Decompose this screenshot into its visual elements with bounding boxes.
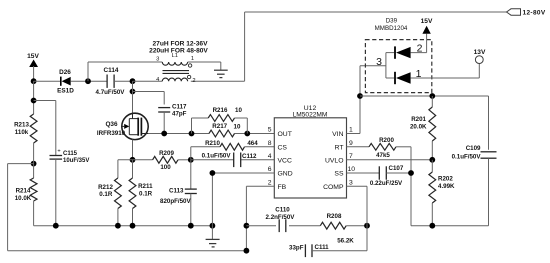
resistor R209 xyxy=(153,150,178,171)
power flag 15V (D39) xyxy=(421,18,433,53)
wire R214 to ground rail xyxy=(33,201,35,226)
svg-text:VCC: VCC xyxy=(278,157,292,164)
svg-text:GND: GND xyxy=(278,171,293,178)
svg-text:10: 10 xyxy=(348,166,356,173)
svg-text:UVLO: UVLO xyxy=(325,157,344,164)
node U (GND pin corner) xyxy=(210,170,216,176)
input tag 12-80V xyxy=(507,9,546,17)
node D (C115 branch) xyxy=(31,98,37,104)
wire ground rail xyxy=(34,225,213,227)
svg-text:D26: D26 xyxy=(59,69,71,76)
svg-text:20.0K: 20.0K xyxy=(410,123,427,130)
svg-text:R216: R216 xyxy=(213,107,228,114)
svg-text:0.1R: 0.1R xyxy=(99,191,113,198)
svg-text:R209: R209 xyxy=(159,150,174,157)
svg-text:220uH FOR 48-80V: 220uH FOR 48-80V xyxy=(149,48,208,55)
svg-text:OUT: OUT xyxy=(278,131,292,138)
svg-text:R200: R200 xyxy=(379,137,394,144)
resistor R210 xyxy=(191,140,274,160)
svg-text:5: 5 xyxy=(268,127,272,134)
svg-text:110k: 110k xyxy=(15,129,29,136)
svg-text:C109: C109 xyxy=(466,145,481,152)
svg-text:C111: C111 xyxy=(315,244,330,251)
svg-text:D39: D39 xyxy=(386,17,398,24)
svg-text:3: 3 xyxy=(376,56,382,68)
svg-text:100: 100 xyxy=(160,164,171,171)
wire GND pin xyxy=(212,173,274,226)
svg-text:R212: R212 xyxy=(98,184,113,191)
wire C117 top branch xyxy=(133,92,165,105)
terminal 13V xyxy=(474,49,486,78)
svg-text:3: 3 xyxy=(349,179,353,186)
diode D39-2 (top) xyxy=(395,43,427,59)
svg-text:R208: R208 xyxy=(327,213,342,220)
capacitor C115 (electrolytic) xyxy=(50,149,90,226)
svg-text:15V: 15V xyxy=(421,18,433,25)
node P (VIN rail left) xyxy=(357,93,363,99)
wire Q36 source xyxy=(132,140,134,160)
resistor R208 xyxy=(320,213,367,245)
resistor R213 xyxy=(14,114,37,143)
capacitor C109 xyxy=(452,145,497,226)
svg-text:C110: C110 xyxy=(275,207,290,214)
ground (L1 pin1) xyxy=(214,70,228,77)
svg-text:1: 1 xyxy=(416,68,422,80)
wire top rail to input tag xyxy=(245,11,507,13)
node R (C107/R200 junction) xyxy=(408,170,414,176)
wire 15V node down xyxy=(33,81,35,114)
svg-text:4.99K: 4.99K xyxy=(438,183,455,190)
wire D39 pin3 down xyxy=(360,66,386,96)
wire UVLO to divider xyxy=(347,159,433,161)
resistor R214 xyxy=(15,178,37,202)
svg-text:2: 2 xyxy=(192,78,195,84)
svg-text:0.1R: 0.1R xyxy=(139,190,153,197)
svg-text:0.1uF/50V: 0.1uF/50V xyxy=(202,152,232,159)
node Q (R201 top) xyxy=(429,93,435,99)
svg-text:56.2K: 56.2K xyxy=(337,237,354,244)
svg-text:R210: R210 xyxy=(205,140,220,147)
resistor R211 xyxy=(129,160,153,226)
wire R213 bottom to R214 top xyxy=(33,143,35,178)
svg-text:464: 464 xyxy=(247,140,258,147)
svg-text:ES1D: ES1D xyxy=(57,88,74,95)
resistor R217 xyxy=(209,123,241,137)
svg-text:R217: R217 xyxy=(212,123,227,130)
svg-text:33pF: 33pF xyxy=(289,245,304,252)
capacitor C110 xyxy=(246,207,320,233)
diode D39 (dual, dashed outline) xyxy=(365,17,431,92)
power flag 15V (left) xyxy=(27,53,39,81)
svg-text:C114: C114 xyxy=(104,67,119,74)
svg-text:C113: C113 xyxy=(169,188,184,195)
node A (15V/D26 junction) xyxy=(31,78,37,84)
resistor R212 xyxy=(98,160,121,226)
node J (R209/C112/C113 junction) xyxy=(188,157,194,163)
svg-text:R211: R211 xyxy=(138,183,153,190)
svg-text:2: 2 xyxy=(417,43,423,55)
wire node B up to L1 pin 3 xyxy=(88,62,162,81)
capacitor C117 xyxy=(158,103,187,133)
svg-text:R202: R202 xyxy=(438,176,453,183)
node E (R213/R214 junction, FB sense) xyxy=(31,161,37,167)
diode D39-1 (bottom) xyxy=(395,68,479,84)
node X (FB lower) xyxy=(244,248,250,254)
svg-text:L1: L1 xyxy=(172,53,178,59)
svg-text:MMBD1204: MMBD1204 xyxy=(375,25,408,32)
svg-text:RT: RT xyxy=(335,144,344,151)
svg-text:1: 1 xyxy=(191,56,194,62)
svg-text:1: 1 xyxy=(349,127,353,134)
resistor R201 xyxy=(410,96,436,160)
svg-text:R213: R213 xyxy=(14,122,29,129)
wire node D to C115 xyxy=(34,101,56,156)
node B (D26 cathode / L1 pin3 branch) xyxy=(85,78,91,84)
svg-text:10: 10 xyxy=(234,124,241,131)
svg-text:LM5022MM: LM5022MM xyxy=(293,112,328,119)
svg-text:C115: C115 xyxy=(63,151,78,157)
wire C112 row xyxy=(191,159,274,161)
wire right bottom rail xyxy=(411,225,489,227)
wire gate line xyxy=(148,133,274,135)
svg-text:820pF/50V: 820pF/50V xyxy=(160,198,191,205)
wire source row xyxy=(118,159,191,161)
wire C114 to L1 pin4 node xyxy=(114,80,132,82)
svg-text:R201: R201 xyxy=(411,116,426,123)
svg-text:IRFR3910: IRFR3910 xyxy=(97,130,126,137)
capacitor C111 xyxy=(289,244,367,257)
node L (R212 gnd) xyxy=(115,223,121,229)
node F (C117/gate) xyxy=(161,131,167,137)
ground (main) xyxy=(206,226,220,247)
svg-text:2: 2 xyxy=(268,179,272,186)
node G (R216 loop left) xyxy=(189,131,195,137)
capacitor C114 xyxy=(96,67,126,96)
svg-text:9: 9 xyxy=(349,140,353,147)
svg-text:SS: SS xyxy=(334,171,344,178)
node C (L1 pin4 / drain) xyxy=(130,78,136,84)
wire VIN pin to rail xyxy=(347,96,361,134)
svg-text:10uF/35V: 10uF/35V xyxy=(63,158,89,164)
svg-text:47pF: 47pF xyxy=(172,111,187,118)
transistor Q36 xyxy=(97,113,149,139)
wire FB pin xyxy=(246,186,274,250)
resistor R216 xyxy=(192,107,248,134)
svg-text:3: 3 xyxy=(156,56,159,62)
wire drain node xyxy=(130,81,136,113)
svg-text:10: 10 xyxy=(235,107,242,114)
wire vin rail xyxy=(360,96,489,150)
wire sense line left and down xyxy=(8,164,247,251)
node T (R202 bottom) xyxy=(429,223,435,229)
resistor R202 xyxy=(429,160,455,226)
wire L1 pin1 to ground xyxy=(188,62,221,70)
node K (C115 gnd) xyxy=(53,223,59,229)
svg-text:FB: FB xyxy=(278,184,287,191)
svg-text:0.1uF/50V: 0.1uF/50V xyxy=(452,154,482,161)
node H (R216 loop right) xyxy=(244,131,250,137)
node W (COMP junction) xyxy=(364,223,370,229)
svg-text:7: 7 xyxy=(349,153,353,160)
node O (GND pin rail) xyxy=(210,223,216,229)
svg-text:27uH FOR 12-36V: 27uH FOR 12-36V xyxy=(153,40,209,47)
wire from L1 pin2 up to top rail xyxy=(191,12,245,81)
svg-text:C112: C112 xyxy=(242,153,257,160)
svg-text:4.7uF/50V: 4.7uF/50V xyxy=(96,89,126,96)
svg-text:C107: C107 xyxy=(389,165,404,172)
pin 3 label xyxy=(376,56,382,68)
svg-text:4: 4 xyxy=(268,153,272,160)
svg-text:COMP: COMP xyxy=(323,184,344,191)
node N (C113 gnd) xyxy=(188,223,194,229)
svg-text:R214: R214 xyxy=(16,188,31,195)
svg-text:2.2nF/50V: 2.2nF/50V xyxy=(266,214,296,221)
node S (UVLO divider junction) xyxy=(429,157,435,163)
svg-text:12-80V: 12-80V xyxy=(523,9,546,16)
wire node C to bottom winding xyxy=(133,80,163,82)
svg-text:+: + xyxy=(57,149,60,155)
svg-text:15V: 15V xyxy=(27,53,39,60)
op-amp U12 (IC LM5022MM) xyxy=(268,105,356,198)
capacitor C107 xyxy=(347,165,412,187)
svg-text:VIN: VIN xyxy=(332,131,343,138)
svg-text:47k5: 47k5 xyxy=(376,152,390,159)
diode D26 xyxy=(34,69,108,95)
inductor L1 (coupled, value note) xyxy=(149,40,208,84)
svg-text:10.0K: 10.0K xyxy=(15,195,32,202)
node V (FB/C110 junction) xyxy=(244,223,250,229)
svg-text:CS: CS xyxy=(278,144,288,151)
svg-text:Q36: Q36 xyxy=(105,121,118,128)
svg-text:C117: C117 xyxy=(172,103,187,110)
node M (R211 gnd) xyxy=(130,223,136,229)
resistor R200 xyxy=(347,137,412,226)
svg-text:8: 8 xyxy=(268,140,272,147)
capacitor C112 xyxy=(202,152,257,167)
wire COMP pin xyxy=(347,186,368,250)
wire D39 common cathode xyxy=(386,53,394,78)
svg-text:6: 6 xyxy=(268,166,272,173)
capacitor C113 xyxy=(160,160,197,226)
svg-text:13V: 13V xyxy=(474,49,486,56)
svg-text:0.22uF/25V: 0.22uF/25V xyxy=(370,180,403,187)
node I (Q36 source) xyxy=(130,157,136,163)
